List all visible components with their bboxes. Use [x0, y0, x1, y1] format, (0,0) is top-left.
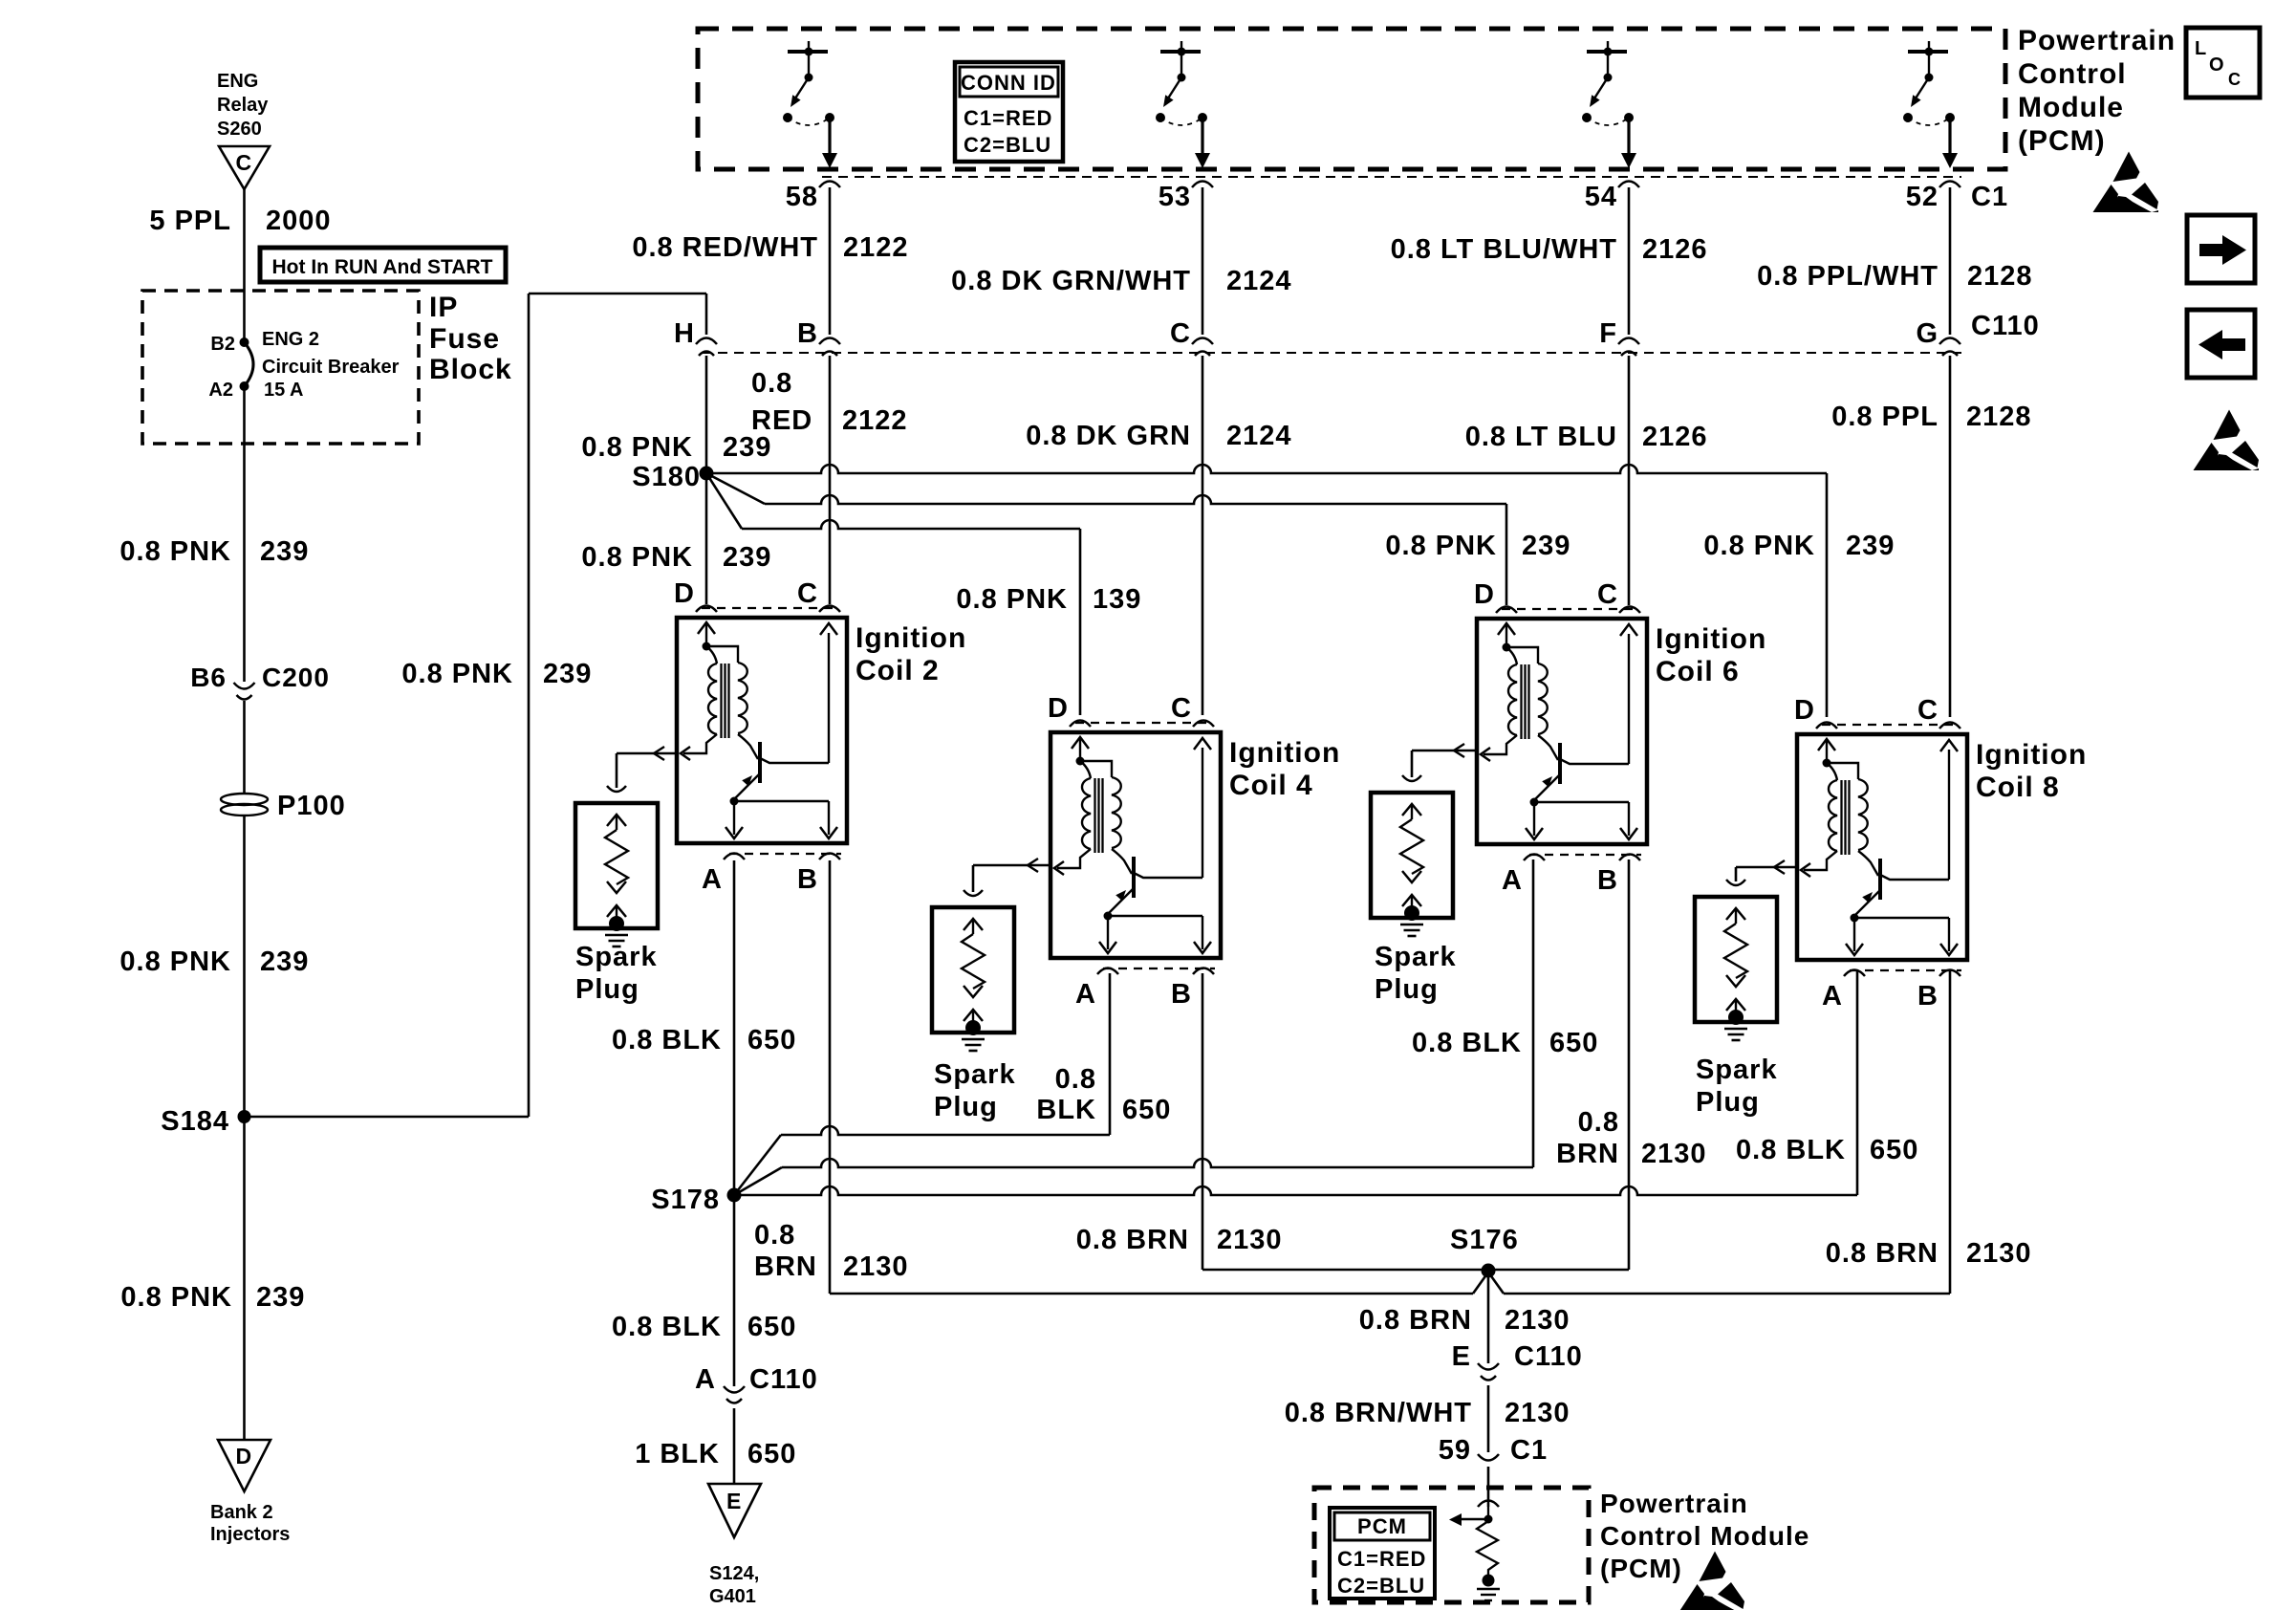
svg-text:0.8 PPL: 0.8 PPL: [1831, 402, 1939, 432]
svg-text:0.8 DK GRN: 0.8 DK GRN: [1026, 421, 1191, 451]
Powertrain Control Module (bottom) dashed box: [1314, 1488, 1589, 1602]
svg-text:A: A: [702, 864, 723, 895]
svg-text:CONN ID: CONN ID: [961, 71, 1056, 95]
terminal B2: [210, 334, 249, 355]
svg-text:C1=RED: C1=RED: [964, 106, 1052, 130]
wire 0.8 PNK 239 (S180 down to coil 2 pin D): [705, 480, 708, 604]
svg-text:C1: C1: [1510, 1435, 1548, 1466]
svg-text:1 BLK: 1 BLK: [635, 1439, 720, 1469]
svg-text:Plug: Plug: [1375, 974, 1439, 1005]
svg-text:B: B: [1171, 979, 1192, 1010]
svg-text:B: B: [797, 318, 818, 349]
wire 0.8 LT BLU 2126: [1628, 356, 1631, 605]
svg-text:S178: S178: [651, 1185, 720, 1215]
label Powertrain Control Module (PCM): [2018, 25, 2176, 157]
wire 0.8 BRN 2130 run to S176: [830, 1293, 1473, 1295]
PCM pin 59 internal terminal: [1478, 1501, 1499, 1520]
svg-text:0.8 BLK: 0.8 BLK: [1412, 1028, 1522, 1058]
svg-text:A: A: [1822, 981, 1843, 1012]
C110 pin C: [1170, 318, 1213, 356]
svg-text:Spark: Spark: [934, 1059, 1016, 1090]
wire 0.8 BRN 2130 (coil 6 pin B down): [1628, 859, 1631, 1270]
svg-text:0.8: 0.8: [1055, 1064, 1096, 1095]
label 0.8 RED 2122: [751, 368, 908, 436]
C110 pin F: [1599, 318, 1639, 356]
label 0.8 BRN/WHT 2130: [1285, 1398, 1570, 1428]
ESD warning symbol (bottom PCM): [1679, 1552, 1745, 1610]
svg-text:Plug: Plug: [934, 1092, 998, 1122]
svg-text:C: C: [1171, 693, 1192, 724]
wire 0.8 DK GRN 2124: [1202, 356, 1204, 715]
svg-text:C: C: [797, 578, 818, 609]
svg-text:0.8 BLK: 0.8 BLK: [612, 1312, 722, 1342]
svg-text:2128: 2128: [1967, 261, 2033, 292]
svg-text:G: G: [1916, 318, 1939, 349]
wire 0.8 BLK 650 branch to coil 8 pin A: [734, 1186, 1857, 1195]
label 0.8 BLK 650: [612, 1312, 796, 1342]
svg-text:C: C: [1597, 579, 1618, 610]
PCM ignition driver 4: [1903, 41, 1958, 168]
ignition coil 6: [1477, 619, 1647, 844]
label 5 PPL 2000: [149, 206, 331, 236]
svg-text:RED: RED: [751, 405, 812, 436]
svg-text:C: C: [1917, 695, 1939, 726]
connector triangle C (from ENG Relay S260): [219, 146, 270, 189]
pin 52 terminal: [1906, 182, 1960, 213]
label Spark Plug 1: [575, 942, 658, 1005]
wire 0.8 PNK 239 (P100 to S184): [243, 816, 246, 1117]
svg-text:C1=RED: C1=RED: [1337, 1547, 1426, 1571]
label 0.8 DK GRN/WHT 2124: [951, 266, 1291, 296]
connector C200 pin B6: [190, 663, 330, 700]
svg-text:O: O: [2209, 54, 2224, 76]
label 0.8 PNK 239: [581, 432, 771, 463]
pin 54 terminal: [1585, 182, 1639, 213]
spark plug 2: [932, 890, 1014, 1051]
svg-text:B: B: [797, 864, 818, 895]
svg-text:54: 54: [1585, 182, 1617, 212]
wire 5 PPL 2000: [243, 189, 246, 291]
wire below C200: [243, 701, 246, 794]
label ENG Relay S260: [217, 71, 269, 140]
svg-text:2130: 2130: [1505, 1305, 1570, 1336]
svg-text:239: 239: [1522, 531, 1570, 561]
label 0.8 PNK 239: [119, 536, 309, 567]
label S124, G401: [709, 1563, 759, 1607]
svg-text:Relay: Relay: [217, 95, 269, 116]
wire 0.8 DK GRN/WHT 2124: [1202, 187, 1204, 335]
wire 0.8 PNK 239 (S184 to Bank 2 Injectors): [243, 1117, 246, 1440]
svg-text:59: 59: [1439, 1435, 1471, 1466]
wire 0.8 BRN/WHT 2130: [1487, 1385, 1490, 1452]
svg-text:239: 239: [723, 432, 771, 463]
svg-text:0.8 PNK: 0.8 PNK: [581, 432, 693, 463]
C110 pin B: [797, 318, 840, 356]
wire 0.8 PPL 2128: [1949, 356, 1952, 717]
wire 0.8 BLK 650 branch to coil 4 pin A: [734, 1135, 781, 1195]
svg-text:Control Module: Control Module: [1600, 1521, 1809, 1551]
wire 0.8 BRN 2130 (S176 down to C110 pin E): [1487, 1271, 1490, 1363]
Powertrain Control Module dashed box: [698, 29, 2005, 169]
svg-text:PCM: PCM: [1357, 1514, 1407, 1538]
label 0.8 PPL 2128: [1831, 402, 2031, 432]
PCM ignition driver 1: [783, 41, 837, 168]
wire riser top run to pin H: [529, 293, 706, 295]
svg-text:C110: C110: [1514, 1341, 1583, 1372]
wire 0.8 PNK 239 (pin H down to S180): [705, 356, 708, 473]
svg-text:D: D: [674, 578, 695, 609]
svg-text:BRN: BRN: [754, 1251, 817, 1282]
svg-text:2126: 2126: [1642, 422, 1708, 452]
wire 0.8 LT BLU/WHT 2126: [1628, 187, 1631, 335]
label Powertrain Control Module (PCM) bottom: [1600, 1489, 1809, 1583]
label Spark Plug 2: [934, 1059, 1016, 1122]
label 0.8 PPL/WHT 2128: [1757, 261, 2032, 292]
wire down to connector C110 pin H: [705, 294, 708, 335]
label 0.8 PNK 239 (coil 8 feed): [1703, 531, 1895, 561]
label 1 BLK 650: [635, 1439, 796, 1469]
svg-text:Control: Control: [2018, 58, 2127, 90]
svg-text:(PCM): (PCM): [1600, 1554, 1682, 1583]
svg-text:0.8 BRN: 0.8 BRN: [1076, 1225, 1189, 1255]
svg-text:A: A: [1502, 865, 1523, 896]
svg-text:0.8: 0.8: [754, 1220, 795, 1251]
wire S184 to IP feed riser: [245, 1116, 530, 1119]
wire coil 6 to spark plug 3: [1412, 744, 1477, 777]
wire 0.8 PNK 239 branch to Ignition Coil 6 pin D: [706, 473, 765, 504]
splice S176: [1450, 1225, 1519, 1278]
svg-text:2122: 2122: [842, 405, 908, 436]
svg-text:0.8 PNK: 0.8 PNK: [581, 542, 693, 573]
wire 0.8 BRN 2130 (coil 2 pin B down): [829, 860, 832, 1294]
svg-text:Coil 8: Coil 8: [1976, 772, 2060, 803]
connector C1 dashed line: [822, 176, 1961, 178]
svg-text:239: 239: [260, 946, 309, 977]
PCM internal ground: [1477, 1575, 1500, 1601]
circuit breaker ENG 2 15A: [245, 329, 400, 386]
svg-text:Spark: Spark: [1696, 1055, 1778, 1085]
svg-text:0.8 PNK: 0.8 PNK: [119, 536, 231, 567]
svg-text:ENG 2: ENG 2: [262, 329, 319, 350]
svg-text:2130: 2130: [1505, 1398, 1570, 1428]
label 0.8 BRN 2130 (coil 4): [1076, 1225, 1283, 1255]
wire into breaker: [243, 291, 246, 342]
grommet P100: [221, 791, 346, 821]
svg-text:650: 650: [1549, 1028, 1598, 1058]
svg-text:A: A: [1075, 979, 1096, 1010]
label 0.8 BLK 650 (coil 8): [1736, 1135, 1918, 1165]
connector C110 dashed line: [702, 352, 1961, 354]
svg-text:D: D: [1474, 579, 1495, 610]
page-back arrow box: [2187, 310, 2255, 378]
svg-text:Bank 2: Bank 2: [210, 1502, 273, 1523]
ignition coil 2: [677, 618, 847, 843]
svg-text:Spark: Spark: [575, 942, 658, 972]
pin 58 terminal: [786, 182, 840, 213]
label 0.8 BRN 2130 (coil 2): [754, 1220, 909, 1282]
svg-text:53: 53: [1159, 182, 1191, 212]
svg-text:0.8: 0.8: [751, 368, 792, 399]
label Spark Plug 3: [1375, 942, 1457, 1005]
svg-text:650: 650: [1870, 1135, 1918, 1165]
svg-text:C200: C200: [262, 663, 330, 692]
svg-text:Ignition: Ignition: [1229, 737, 1340, 769]
PCM internal pull resistor: [1477, 1521, 1498, 1576]
svg-text:5 PPL: 5 PPL: [149, 206, 231, 236]
svg-text:C110: C110: [749, 1364, 818, 1395]
ignition coil 4: [1051, 732, 1221, 958]
svg-text:Ignition: Ignition: [856, 622, 966, 654]
wire coil 4 to spark plug 2: [973, 859, 1051, 892]
svg-text:239: 239: [723, 542, 771, 573]
svg-text:B: B: [1597, 865, 1618, 896]
ignition coil 4 connector pins D C A B: [1048, 693, 1340, 1010]
svg-text:239: 239: [260, 536, 309, 567]
svg-text:Powertrain: Powertrain: [1600, 1489, 1748, 1518]
svg-text:B6: B6: [190, 663, 227, 692]
ignition coil 8 connector pins D C A B: [1794, 695, 2087, 1012]
splice S184: [161, 1106, 250, 1137]
svg-text:52: 52: [1906, 182, 1939, 212]
wire 0.8 RED 2122: [829, 356, 832, 604]
svg-text:D: D: [1048, 693, 1069, 724]
ignition coil 6 connector pins D C A B: [1474, 579, 1766, 896]
wire into PCM pin 59: [1487, 1467, 1490, 1507]
svg-text:S124,: S124,: [709, 1563, 759, 1584]
label Bank 2 Injectors: [210, 1502, 290, 1545]
svg-text:Fuse: Fuse: [429, 323, 500, 355]
label 0.8 BLK 650 (coil 6): [1412, 1028, 1598, 1058]
svg-text:ENG: ENG: [217, 71, 258, 92]
svg-text:S180: S180: [632, 462, 701, 492]
svg-text:0.8 BRN: 0.8 BRN: [1826, 1238, 1939, 1269]
svg-text:Coil 6: Coil 6: [1656, 656, 1740, 687]
svg-text:G401: G401: [709, 1586, 756, 1607]
svg-text:S260: S260: [217, 119, 262, 140]
svg-text:C2=BLU: C2=BLU: [964, 133, 1051, 157]
label 0.8 BLK 650 (coil 4): [1036, 1064, 1171, 1125]
svg-text:2128: 2128: [1966, 402, 2032, 432]
label 0.8 PNK 239 (coil 2 feed): [581, 542, 771, 573]
ignition coil 8: [1797, 734, 1967, 960]
connector triangle D (Bank 2 Injectors): [218, 1440, 271, 1491]
svg-text:0.8 PNK: 0.8 PNK: [956, 584, 1068, 615]
wire coil 8 to spark plug 4: [1736, 860, 1797, 881]
svg-text:2124: 2124: [1226, 266, 1292, 296]
connector C1 pin 59: [1439, 1435, 1548, 1466]
ESD warning symbol (top): [2093, 152, 2159, 213]
svg-text:Spark: Spark: [1375, 942, 1457, 972]
wire 1 BLK 650 to ground: [733, 1408, 736, 1484]
label 0.8 BRN 2130 (coil 8): [1826, 1238, 2032, 1269]
svg-text:D: D: [1794, 695, 1815, 726]
svg-text:0.8 RED/WHT: 0.8 RED/WHT: [632, 232, 818, 263]
C110 pin H: [674, 318, 717, 356]
svg-text:C2=BLU: C2=BLU: [1337, 1574, 1425, 1598]
svg-text:2130: 2130: [843, 1251, 909, 1282]
svg-text:0.8 PNK: 0.8 PNK: [1385, 531, 1497, 561]
label 0.8 PNK 239: [119, 946, 309, 977]
svg-text:Ignition: Ignition: [1976, 739, 2087, 771]
svg-text:650: 650: [1122, 1095, 1171, 1125]
label 0.8 RED/WHT 2122: [632, 232, 908, 263]
svg-text:650: 650: [747, 1439, 796, 1469]
label Spark Plug 4: [1696, 1055, 1778, 1118]
C110 pin G: [1916, 318, 1960, 356]
svg-text:0.8 PNK: 0.8 PNK: [401, 659, 513, 689]
svg-text:L: L: [2195, 38, 2206, 59]
wire 0.8 PPL/WHT 2128: [1949, 187, 1952, 335]
svg-text:15 A: 15 A: [264, 380, 304, 401]
svg-text:F: F: [1599, 318, 1617, 349]
svg-text:Ignition: Ignition: [1656, 623, 1766, 655]
svg-text:2130: 2130: [1966, 1238, 2032, 1269]
svg-text:BLK: BLK: [1036, 1095, 1096, 1125]
svg-text:0.8 PNK: 0.8 PNK: [1703, 531, 1815, 561]
wire 0.8 PNK 239 (breaker to C200): [243, 386, 246, 682]
svg-text:0.8 BLK: 0.8 BLK: [612, 1025, 722, 1055]
label 0.8 DK GRN 2124: [1026, 421, 1291, 451]
wire 0.8 BRN 2130 (coil 8 B to S176): [1504, 1293, 1950, 1295]
wire 0.8 RED/WHT 2122: [829, 187, 832, 335]
svg-text:D: D: [236, 1444, 253, 1469]
label 0.8 PNK 239 (coil 6 feed): [1385, 531, 1570, 561]
svg-text:C: C: [2228, 70, 2241, 89]
svg-text:0.8 PNK: 0.8 PNK: [119, 946, 231, 977]
svg-text:Coil 2: Coil 2: [856, 655, 940, 686]
svg-text:S176: S176: [1450, 1225, 1519, 1255]
svg-text:139: 139: [1093, 584, 1141, 615]
svg-text:2130: 2130: [1217, 1225, 1283, 1255]
svg-text:2130: 2130: [1641, 1139, 1707, 1169]
ground triangle E (S124, G401): [708, 1484, 761, 1537]
svg-text:650: 650: [747, 1025, 796, 1055]
svg-text:0.8 LT BLU/WHT: 0.8 LT BLU/WHT: [1391, 234, 1617, 265]
spark plug 4: [1695, 880, 1777, 1040]
label 0.8 PNK 139 (coil 4 feed): [956, 584, 1141, 615]
label 0.8 BRN 2130 (coil 6): [1556, 1107, 1706, 1169]
label 0.8 BRN 2130: [1359, 1305, 1570, 1336]
svg-text:Block: Block: [429, 354, 512, 385]
svg-text:239: 239: [1846, 531, 1895, 561]
svg-text:H: H: [674, 318, 695, 349]
svg-text:B2: B2: [210, 334, 235, 355]
svg-text:E: E: [726, 1489, 742, 1513]
svg-text:E: E: [1452, 1341, 1471, 1372]
ESD warning symbol (right margin): [2194, 410, 2260, 471]
wire 0.8 BLK 650 branch to coil 6 pin A: [734, 1167, 782, 1195]
svg-text:BRN: BRN: [1556, 1139, 1619, 1169]
svg-text:58: 58: [786, 182, 818, 212]
svg-text:239: 239: [256, 1282, 305, 1313]
svg-text:Module: Module: [2018, 92, 2124, 123]
label 0.8 PNK 239: [120, 1282, 305, 1313]
splice S178: [651, 1185, 741, 1215]
spark plug 1: [575, 786, 658, 946]
svg-text:2124: 2124: [1226, 421, 1292, 451]
svg-text:2000: 2000: [266, 206, 332, 236]
svg-text:2126: 2126: [1642, 234, 1708, 265]
svg-text:0.8 BRN: 0.8 BRN: [1359, 1305, 1472, 1336]
CONN ID table: [955, 62, 1063, 162]
label 0.8 BLK 650 (coil 2): [612, 1025, 796, 1055]
PCM ignition driver 2: [1156, 41, 1210, 168]
svg-text:Plug: Plug: [575, 974, 639, 1005]
svg-text:Circuit Breaker: Circuit Breaker: [262, 357, 400, 378]
svg-text:C: C: [236, 150, 253, 175]
wire 0.8 BLK 650 (S178 down to C110 pin A): [733, 1195, 736, 1386]
svg-text:P100: P100: [277, 791, 346, 821]
svg-text:0.8 PNK: 0.8 PNK: [120, 1282, 232, 1313]
wire 0.8 BLK 650 (coil 2 pin A down to S178): [733, 860, 736, 1195]
svg-text:A2: A2: [208, 380, 233, 401]
spark plug 3: [1371, 775, 1453, 936]
wire 0.8 BRN 2130 (coil 4 pin B down): [1202, 973, 1204, 1270]
svg-text:A: A: [695, 1364, 716, 1395]
wire 0.8 BRN 2130 (coil 8 pin B down): [1949, 969, 1952, 1294]
svg-text:0.8 DK GRN/WHT: 0.8 DK GRN/WHT: [951, 266, 1191, 296]
label 0.8 LT BLU 2126: [1465, 422, 1708, 452]
svg-text:2122: 2122: [843, 232, 909, 263]
svg-text:C110: C110: [1971, 311, 2040, 341]
svg-text:(PCM): (PCM): [2018, 125, 2106, 157]
svg-text:C: C: [1170, 318, 1191, 349]
svg-text:IP: IP: [429, 292, 458, 323]
IP fuse block dashed box: [142, 291, 419, 444]
connector C110 pin E: [1452, 1341, 1583, 1381]
svg-text:Injectors: Injectors: [210, 1524, 290, 1545]
svg-text:Coil 4: Coil 4: [1229, 770, 1313, 801]
svg-text:B: B: [1917, 981, 1939, 1012]
svg-text:Plug: Plug: [1696, 1087, 1760, 1118]
ignition coil 2 connector pins D C A B: [674, 578, 966, 895]
wire 0.8 BRN 2130 (coil 6 B to S176): [1488, 1269, 1629, 1272]
splice S180: [632, 462, 713, 492]
LOC legend box: [2186, 28, 2260, 98]
svg-text:239: 239: [543, 659, 592, 689]
wire 0.8 PNK 139 branch to Ignition Coil 4 pin D: [706, 473, 742, 529]
svg-text:Hot In RUN And START: Hot In RUN And START: [272, 256, 493, 278]
svg-text:0.8 BLK: 0.8 BLK: [1736, 1135, 1846, 1165]
PCM internal node with left arrow: [1449, 1513, 1493, 1526]
PCM ignition driver 3: [1582, 41, 1636, 168]
wire 0.8 BRN 2130 (coil 4 B to S176): [1202, 1269, 1488, 1272]
label IP Fuse Block: [429, 292, 512, 385]
svg-text:C1: C1: [1971, 182, 2008, 212]
label 0.8 PNK 239: [401, 659, 592, 689]
pin 53 terminal: [1159, 182, 1213, 213]
svg-text:0.8 PPL/WHT: 0.8 PPL/WHT: [1757, 261, 1939, 292]
wire coil 2 to spark plug 1: [617, 747, 677, 788]
svg-text:0.8 LT BLU: 0.8 LT BLU: [1465, 422, 1617, 452]
svg-text:S184: S184: [161, 1106, 229, 1137]
svg-text:0.8: 0.8: [1578, 1107, 1619, 1138]
page-forward arrow box: [2187, 215, 2255, 283]
note box Hot In RUN And START: [260, 248, 506, 282]
connector C110 pin A: [695, 1364, 818, 1403]
svg-text:650: 650: [747, 1312, 796, 1342]
svg-text:Powertrain: Powertrain: [2018, 25, 2176, 56]
wire 0.8 PNK 239 branch to Ignition Coil 8 pin D: [706, 465, 1827, 473]
PCM connector ID table: [1330, 1508, 1435, 1599]
svg-text:0.8 BRN/WHT: 0.8 BRN/WHT: [1285, 1398, 1472, 1428]
terminal A2: [208, 380, 303, 401]
label 0.8 LT BLU/WHT 2126: [1391, 234, 1708, 265]
wire 0.8 PNK 239 riser (to IP fuse block): [528, 294, 531, 1117]
